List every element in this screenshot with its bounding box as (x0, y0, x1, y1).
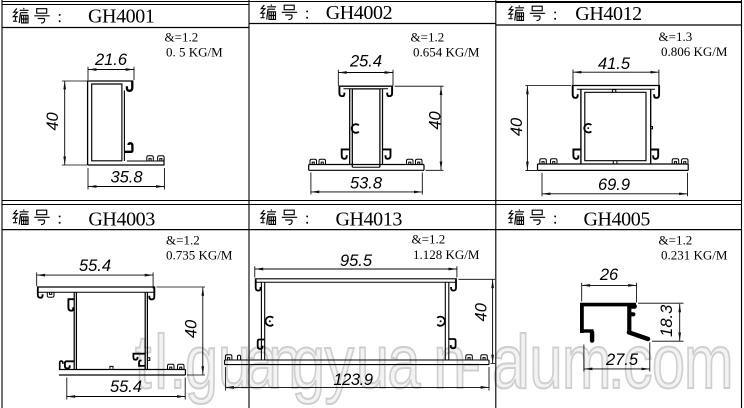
profile GH4013 plate left end hook (256, 279, 261, 290)
profile GH4002 left side hook (342, 149, 350, 158)
profile GH4003 base plate (59, 370, 185, 376)
svg-text:21.6: 21.6 (94, 51, 128, 69)
profile GH4005 left foot blob (590, 333, 594, 341)
dim 41.5 extension lines (573, 70, 659, 86)
row2 header bottom line (2, 229, 742, 231)
svg-text:95.5: 95.5 (340, 252, 373, 270)
profile GH4005 diagonal foot (629, 332, 648, 339)
profile GH4003 lower-left hook (65, 361, 74, 368)
dim 18.3 extension lines (638, 303, 684, 341)
profile GH4013 left C screw boss (266, 317, 274, 326)
svg-text:26: 26 (599, 266, 619, 284)
profile GH4001 top-right J hook (127, 82, 132, 91)
svg-text:&=1.2: &=1.2 (411, 30, 445, 45)
profile GH4002 base left clips (310, 159, 317, 164)
profile GH4002 base plate (309, 165, 424, 171)
profile GH4002 cap right end hook (387, 87, 392, 97)
profile GH4012 right side hook (651, 150, 659, 159)
profile GH4001 tube outer right wall (123, 91, 125, 162)
dim 55.4 bottom line (67, 396, 185, 398)
svg-text:GH4013: GH4013 (336, 209, 403, 231)
profile GH4002 cap left end hook (339, 87, 344, 97)
profile GH4013 right wall (445, 282, 449, 360)
dim 40 line (526, 86, 528, 170)
dim 40 line (202, 287, 204, 374)
profile GH4012 base plate (538, 164, 689, 170)
dim 123.9 line (226, 386, 489, 388)
profile GH4005 right leg (627, 305, 631, 334)
profile GH4002 tube left wall (350, 89, 353, 167)
profile GH4005 left leg (580, 304, 584, 334)
svg-text:0. 5 KG/M: 0. 5 KG/M (166, 45, 223, 60)
profile GH4013 top plate (255, 278, 457, 280)
profile GH4003 flange left end hook (38, 287, 43, 297)
svg-text:&=1.3: &=1.3 (659, 29, 693, 44)
header band cell1 bottom line (2, 27, 249, 29)
watermark tl.guangyuan-alum.com (135, 320, 733, 405)
svg-text:53.8: 53.8 (350, 175, 383, 193)
svg-text:35.8: 35.8 (110, 169, 143, 187)
profile GH4002 right side hook (383, 149, 391, 158)
svg-text:25.4: 25.4 (349, 53, 382, 71)
profile GH4003 body left wall (74, 292, 76, 369)
profile GH4013 left wall (261, 282, 264, 360)
svg-text:40: 40 (473, 302, 491, 321)
profile GH4013 right C screw boss (437, 317, 445, 326)
dim 69.9 line (542, 193, 688, 195)
header cell4: 编号: GH4003 (13, 209, 61, 224)
svg-text:GH4005: GH4005 (584, 209, 651, 231)
svg-text:40: 40 (183, 319, 201, 338)
profile GH4003 right-wall inner hook lower (139, 361, 145, 366)
svg-text:69.9: 69.9 (598, 176, 630, 194)
profile GH4002 tube inner top and floor (352, 89, 380, 167)
dim 26 extension lines (582, 283, 637, 303)
dim 53.8 line (311, 191, 422, 193)
dim 55.4 bottom extension lines (67, 378, 185, 400)
profile GH4012 top-center tab (612, 90, 615, 93)
profile GH4003 flange left clip (47, 292, 54, 297)
profile GH4003 flange right end hook (149, 287, 154, 299)
profile GH4013 base right clips (466, 355, 473, 360)
dim 27.5 extension lines (584, 343, 650, 372)
header cell3: 编号: GH4012 (509, 5, 557, 20)
dim 40 extension lines (157, 287, 206, 375)
svg-text:&=1.2: &=1.2 (659, 232, 693, 247)
profile GH4003 flange top line (37, 286, 155, 288)
svg-text:0.231 KG/M: 0.231 KG/M (661, 248, 728, 263)
dim 95.5 extension lines (255, 266, 457, 277)
table column line 2 (495, 0, 497, 408)
profile GH4013 right bottom hook (449, 339, 456, 348)
dim 40 extension lines (395, 86, 444, 170)
svg-text:27.5: 27.5 (605, 351, 639, 369)
svg-text:55.4: 55.4 (79, 257, 111, 275)
profile GH4005 mid-right tab (630, 312, 633, 316)
profile GH4003 base right clips (168, 364, 175, 369)
dim 35.8 line (88, 186, 164, 188)
dim 40 line (440, 87, 442, 170)
profile GH4013 base plate (225, 360, 489, 365)
profile GH4013 plate right end hook (451, 279, 456, 290)
profile GH4012 cap right end hook (654, 86, 659, 98)
dim 21.6 extension lines (88, 67, 134, 80)
svg-text:40: 40 (44, 112, 62, 131)
svg-text:GH4003: GH4003 (88, 209, 155, 231)
profile GH4003 body right wall (145, 292, 147, 369)
profile GH4012 C screw boss (584, 124, 591, 133)
profile GH4003 flange bottom line (37, 291, 155, 293)
profile GH4003 base left end lip (60, 361, 63, 369)
dim 55.4 top line (37, 274, 153, 276)
svg-text:&=1.2: &=1.2 (166, 232, 200, 247)
svg-text:0.806 KG/M: 0.806 KG/M (661, 44, 728, 59)
table outer top border (2, 1, 742, 3)
svg-text:40: 40 (427, 111, 445, 130)
profile GH4001 flange clip 1 (147, 156, 154, 161)
profile GH4001 flange clip 2 (158, 156, 165, 161)
svg-text:0.654 KG/M: 0.654 KG/M (413, 45, 480, 60)
dim 53.8 extension lines (311, 173, 422, 195)
svg-text:123.9: 123.9 (333, 371, 373, 389)
profile GH4002 base right clips (407, 159, 414, 164)
header band cell3 bottom line (496, 24, 742, 26)
dim 40 line (492, 280, 494, 363)
profile GH4002 cap bottom line (344, 88, 389, 90)
svg-text:55.4: 55.4 (110, 378, 142, 396)
profile GH4001 tube inner cavity (92, 84, 122, 161)
dim 41.5 line (573, 71, 659, 73)
profile GH4012 cap top line (572, 85, 660, 87)
svg-text:GH4001: GH4001 (88, 6, 155, 28)
profile GH4012 base right clips (672, 159, 679, 164)
table right border (741, 0, 743, 408)
profile GH4012 body outer walls (581, 89, 651, 164)
dim 40 extension lines (62, 81, 87, 165)
svg-text:GH4012: GH4012 (575, 3, 642, 25)
header band cell3 top line (496, 2, 742, 4)
svg-text:41.5: 41.5 (598, 55, 631, 73)
dim 21.6 line (88, 69, 134, 71)
profile GH4001 flange top line (127, 160, 164, 162)
profile GH4012 body inner cavity (585, 92, 646, 160)
header cell1: 编号: GH4001 (13, 8, 61, 23)
svg-text:&=1.2: &=1.2 (412, 232, 446, 247)
profile GH4003 center bottom bump (110, 366, 113, 368)
svg-text:GH4002: GH4002 (326, 2, 393, 24)
profile GH4012 left side hook (573, 150, 581, 159)
profile GH4012 base left clips (540, 159, 547, 164)
profile GH4012 cap bottom line (577, 88, 655, 90)
header cell5: 编号: GH4013 (261, 209, 309, 224)
dim 123.9 extension lines (226, 367, 489, 391)
profile GH4013 left bottom hook (258, 340, 265, 349)
dim 25.4 line (338, 72, 393, 74)
header band cell1 top line (2, 4, 249, 6)
profile GH4012 cap left end hook (573, 86, 578, 98)
profile GH4012 bottom-center tab (613, 161, 617, 164)
dim 40 extension lines (459, 279, 496, 363)
dim 25.4 extension lines (338, 70, 393, 86)
profile GH4002 tube right wall (380, 89, 383, 167)
row separator line (2, 200, 742, 202)
svg-text:40: 40 (508, 117, 526, 136)
header cell2: 编号: GH4002 (261, 4, 309, 19)
dim 40 line (64, 81, 66, 165)
profile GH4013 base left clips (225, 355, 232, 360)
dim 95.5 line (255, 268, 457, 270)
profile GH4002 C screw boss (352, 124, 359, 133)
dim 40 extension lines (525, 86, 571, 171)
header cell6: 编号: GH4005 (509, 209, 557, 224)
dim 26 line (582, 284, 637, 286)
profile GH4003 upper-left hook (68, 299, 74, 311)
dim 55.4 top extension lines (37, 272, 153, 288)
profile GH4012 right wall tick (651, 127, 653, 129)
dim 35.8 extension lines (88, 168, 164, 190)
profile GH4003 right-wall inner hook upper (133, 354, 145, 360)
profile GH4001 tube outer left+top (88, 81, 134, 165)
header band cell2 bottom line (249, 23, 496, 25)
svg-text:&=1.2: &=1.2 (165, 30, 199, 45)
svg-text:1.128 KG/M: 1.128 KG/M (413, 247, 480, 262)
svg-text:18.3: 18.3 (658, 304, 676, 337)
dim 69.9 extension lines (542, 173, 688, 197)
profile GH4002 cap top line (339, 85, 394, 87)
profile GH4003 right-wall outer tick (147, 358, 149, 361)
profile GH4005 left foot stub (582, 329, 594, 332)
dim 27.5 line (584, 368, 650, 370)
table left border (1, 0, 3, 408)
row2 header top line (2, 204, 742, 206)
profile GH4005 top bar (580, 303, 636, 307)
profile GH4001 mid-right hook (124, 143, 132, 152)
table column line 1 (248, 0, 250, 408)
svg-text:0.735 KG/M: 0.735 KG/M (166, 248, 233, 263)
profile GH4005 top-right tab (632, 304, 635, 309)
dim 18.3 line (679, 304, 681, 341)
profile GH4001 bottom outer line (88, 159, 164, 165)
